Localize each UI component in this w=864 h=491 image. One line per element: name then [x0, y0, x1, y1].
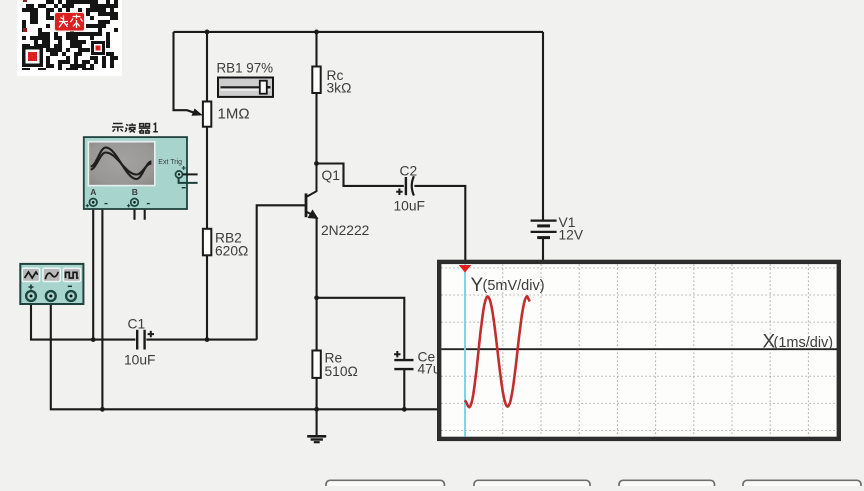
wire ground rail: [51, 301, 438, 409]
svg-text:C2: C2: [400, 164, 418, 179]
wire RB2 bottom: [206, 255, 208, 339]
resistor Re: [312, 351, 320, 378]
svg-text:RB1 97%: RB1 97%: [217, 61, 274, 76]
screen trace 1: [91, 148, 152, 180]
svg-text:3kΩ: 3kΩ: [327, 81, 352, 96]
wire Re top: [316, 298, 318, 351]
wire C1 output: [146, 339, 256, 341]
svg-text:(5mV/div): (5mV/div): [483, 278, 545, 294]
wire scope A minus: [97, 202, 102, 409]
junction scope A / C1 wire: [91, 337, 96, 342]
svg-text:Q1: Q1: [322, 168, 340, 183]
capacitor Ce: [394, 351, 413, 369]
svg-text:10uF: 10uF: [124, 353, 155, 368]
wire Rc top: [315, 32, 317, 67]
junction Ce / ground rail: [402, 407, 407, 412]
QR stamp 头条: [55, 13, 85, 32]
cursor marker: [459, 265, 472, 273]
wire top rail: [174, 31, 544, 33]
fg terminal minus: [66, 291, 76, 301]
bottom buttons: [326, 480, 861, 491]
Ext Trig terminal: [176, 166, 198, 188]
svg-text:2N2222: 2N2222: [321, 223, 369, 238]
wire Rc bottom to collector node: [315, 93, 317, 164]
oscilloscope instrument 示波器1: [84, 123, 198, 209]
grid horizontal lines: [442, 268, 838, 431]
wire scope B plus stub: [133, 206, 135, 220]
QR red modules: [23, 0, 27, 2]
function generator body: [20, 264, 83, 304]
QR finder bottom-left: [22, 46, 43, 67]
wire pot wiper feed: [174, 32, 198, 114]
junction collector node: [314, 161, 319, 166]
oscilloscope screen: [88, 141, 156, 187]
fg minus mark: [68, 285, 72, 287]
battery V1: [531, 221, 557, 238]
svg-text:510Ω: 510Ω: [325, 364, 358, 379]
oscilloscope display panel: [439, 262, 839, 439]
wire emitter to Ce: [317, 298, 405, 359]
svg-text:B: B: [132, 187, 138, 197]
wire collector node to C2: [317, 164, 404, 186]
wire scope B minus stub: [138, 202, 144, 220]
wire pot to RB2: [206, 127, 208, 229]
junction top rail / Rc: [314, 30, 319, 35]
wire C2 to scope input: [414, 186, 465, 260]
button sine wave: [43, 268, 60, 281]
capacitor C1: [137, 330, 154, 350]
wire Ce bottom: [403, 370, 405, 409]
X axis: [442, 348, 838, 350]
grid vertical lines: [465, 265, 809, 437]
instrument title 示波器1: [112, 123, 158, 133]
junction emitter node: [314, 295, 319, 300]
resistor Rc: [312, 67, 320, 94]
button square wave: [63, 268, 80, 281]
junction Re / ground rail: [314, 407, 319, 412]
slider widget RB1: [218, 78, 273, 97]
potentiometer RB1 body: [192, 102, 211, 127]
wire emitter down: [316, 217, 318, 298]
fg terminal plus: [26, 291, 36, 301]
wire C1 input: [31, 301, 135, 340]
svg-text:C1: C1: [128, 317, 146, 332]
wire ground stub: [316, 409, 318, 435]
svg-text:Ext Trig: Ext Trig: [158, 159, 182, 166]
scope terminal B: [127, 199, 150, 208]
fg plus mark: [29, 285, 34, 290]
fg terminal common: [46, 291, 56, 301]
button triangle wave: [22, 268, 39, 281]
wire V1 minus to panel: [542, 238, 544, 260]
junction scope A minus / ground rail: [100, 407, 105, 412]
wire V1 drop: [542, 32, 544, 221]
wire pot top: [206, 32, 208, 102]
oscilloscope body: [84, 137, 187, 209]
QR finder right: [91, 41, 105, 55]
svg-text:12V: 12V: [559, 228, 584, 243]
junction RB2 / base wire: [205, 337, 210, 342]
svg-text:(1ms/div): (1ms/div): [774, 335, 834, 351]
svg-text:A: A: [90, 187, 96, 197]
transistor Q1: [306, 164, 318, 219]
wire base: [257, 205, 305, 339]
scope time cursor: [464, 264, 466, 437]
screen trace 2: [91, 153, 152, 175]
ground: [307, 436, 326, 442]
svg-text:1MΩ: 1MΩ: [218, 106, 250, 123]
scope terminal A: [86, 199, 108, 208]
red waveform: [465, 296, 530, 407]
resistor RB2: [203, 229, 211, 256]
capacitor C2: [396, 176, 414, 195]
function generator instrument: [20, 264, 83, 304]
wire scope A plus: [92, 206, 94, 340]
QR watermark block: [17, 0, 122, 76]
junction top rail / pot: [205, 30, 210, 35]
svg-text:10uF: 10uF: [394, 199, 425, 214]
wire Re bottom: [316, 378, 318, 409]
svg-text:620Ω: 620Ω: [215, 244, 248, 259]
